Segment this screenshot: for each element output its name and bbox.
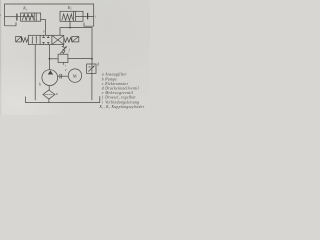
wire: stub below block: [62, 63, 64, 65]
cylinder K1 spring: [22, 14, 33, 20]
throttle f arrow: [60, 46, 67, 53]
wire: horizontal under K2: [60, 28, 92, 64]
wire: valve port to throttle: [62, 45, 64, 47]
svg-text:i: i: [102, 100, 103, 104]
background paper: [0, 0, 150, 115]
tank: [25, 96, 99, 102]
svg-text:Mehrwegeventil: Mehrwegeventil: [104, 91, 133, 95]
wire: valve T port to tank (left long return): [34, 45, 36, 101]
svg-text:Ansaugfilter: Ansaugfilter: [104, 73, 127, 77]
cylinder K1 piston: [33, 13, 35, 21]
cylinder K2 rod: [75, 15, 93, 17]
clutch fork K2 bracket: [84, 23, 94, 26]
valve e left solenoid: [16, 37, 22, 42]
cylinder K2 rod flange: [87, 13, 89, 19]
node: junction K2 line: [69, 27, 71, 29]
svg-text:Druckeinstellventil: Druckeinstellventil: [104, 87, 139, 91]
svg-text:M: M: [73, 73, 77, 78]
node: junction relief line: [91, 58, 93, 60]
svg-text:a: a: [56, 92, 58, 96]
relief valve d body: [87, 64, 96, 73]
cylinder K1 rod: [17, 16, 34, 18]
svg-text:b: b: [102, 77, 104, 81]
svg-text:a: a: [102, 73, 104, 77]
wire: filter to tank: [48, 99, 50, 103]
svg-text:d: d: [97, 63, 99, 67]
valve e body: [28, 35, 64, 44]
clutch fork K1 bracket: [5, 22, 17, 26]
valve e right spring: [64, 38, 72, 43]
filter a diamond: [43, 90, 55, 99]
wire: branch from block to relief line: [68, 58, 93, 60]
svg-text:e: e: [102, 91, 104, 95]
svg-text:Elektromotor: Elektromotor: [104, 82, 128, 86]
wire: pressure branch left of block: [50, 58, 59, 60]
cylinder K1 rod flange: [16, 14, 18, 21]
svg-text:Pumpe: Pumpe: [104, 77, 117, 81]
valve e position 1 flow arrows: [31, 36, 33, 43]
svg-text:b: b: [39, 82, 41, 86]
wire: K2 port down: [69, 21, 71, 27]
pump b circle: [42, 70, 58, 86]
valve e left spring: [21, 38, 28, 43]
valve e right solenoid: [72, 37, 79, 42]
wire: pump pressure line to valve: [49, 45, 51, 70]
cylinder K2 body: [60, 11, 83, 21]
throttle f arcs: [62, 47, 65, 53]
block below throttle: [58, 54, 68, 62]
cylinder K2 piston: [72, 11, 74, 21]
legend: [99, 73, 145, 110]
valve e position 2 blocked ports: [42, 35, 49, 37]
pump b flow triangle: [48, 70, 53, 74]
node: junction pressure branch: [49, 58, 51, 60]
wire: pump suction: [48, 86, 50, 91]
cylinder K2 spring: [62, 14, 73, 20]
wire: throttle to block: [62, 53, 64, 55]
wire: top mechanical frame line: [5, 4, 94, 26]
svg-text:c: c: [102, 82, 104, 86]
clutch fork K1 arm to rod: [5, 16, 17, 18]
svg-text:d: d: [102, 87, 104, 91]
wire: K1 port to valve: [41, 20, 46, 36]
relief valve d arrow: [88, 66, 94, 72]
shaft pump-motor coupling: [58, 75, 69, 77]
cylinder K1 body: [21, 13, 41, 21]
svg-text:Verbindungsleitung: Verbindungsleitung: [105, 100, 139, 104]
valve e position 3 crossed flow: [53, 36, 64, 44]
wire: relief valve drain to tank: [91, 64, 93, 100]
motor M circle: [68, 69, 81, 82]
